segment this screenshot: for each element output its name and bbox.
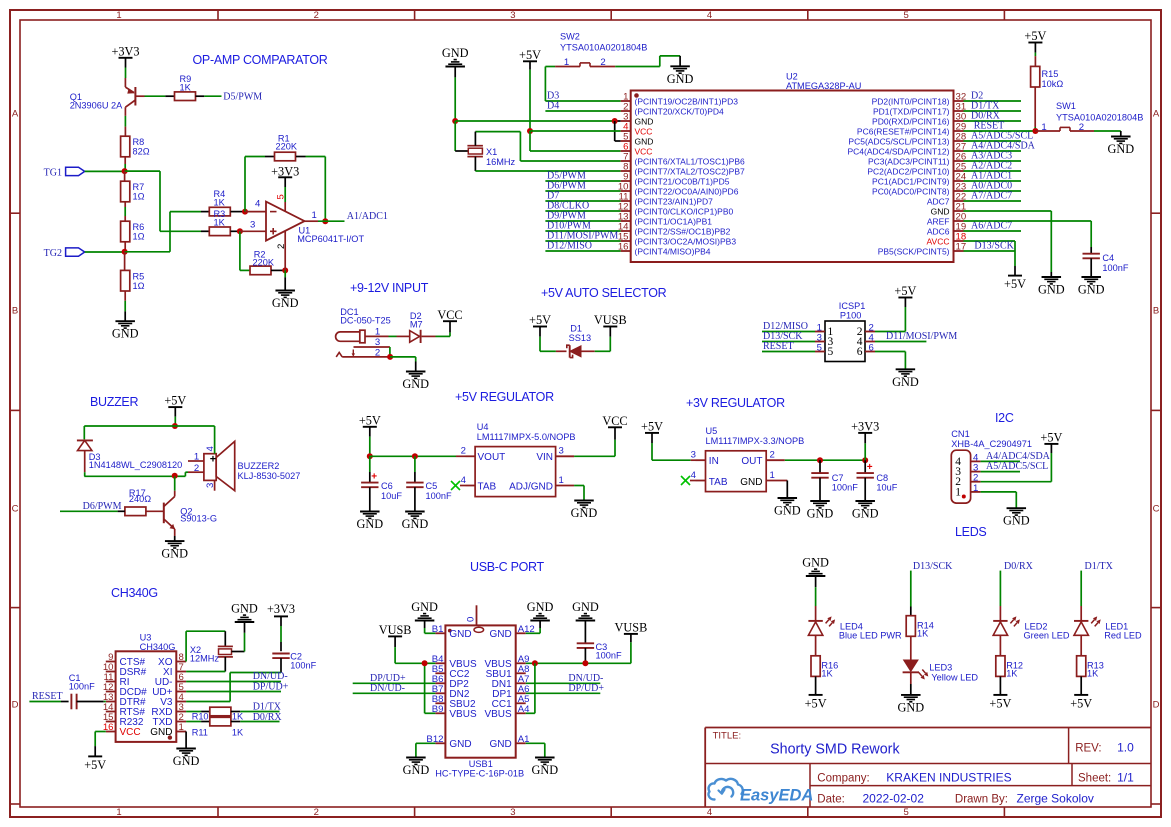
svg-text:82Ω: 82Ω [133,147,150,157]
svg-text:VCC: VCC [437,308,462,322]
wire Q1 base to R9 [145,95,166,97]
diode D1 SS13 schottky [567,324,591,358]
svg-text:TG2: TG2 [44,248,62,259]
power flag +3V3 (C2) [267,602,295,651]
U3 pin 14 RTS# [103,702,145,718]
resistor R11 1K [186,717,279,737]
wire R5 to ground [124,291,126,321]
svg-text:D12/MISO: D12/MISO [547,241,592,252]
svg-text:YTSA010A0201804B: YTSA010A0201804B [560,43,647,53]
net label D6/PWM (buzzer) [83,501,122,512]
U2 pin 31 PD1(TXD/PCINT17) [873,102,966,117]
svg-text:1K: 1K [214,217,226,227]
U2 pin 26 PC3(ADC3/PCINT11) [868,152,966,167]
U2 pin 6 VCC [621,142,653,157]
svg-text:GND: GND [161,547,188,561]
power flag +5V (AVCC) [1004,276,1026,292]
svg-text:1Ω: 1Ω [133,232,145,242]
svg-text:ADC6: ADC6 [927,227,950,237]
svg-text:PD2(INT0/PCINT18): PD2(INT0/PCINT18) [872,97,950,107]
svg-text:DP/UD+: DP/UD+ [568,683,604,694]
USB1 pin A12 GND [489,624,534,640]
ground (Q2) [161,541,188,561]
svg-text:C6: C6 [381,481,393,491]
svg-text:+5V: +5V [1070,696,1092,710]
svg-text:(PCINT4/MISO)PB4: (PCINT4/MISO)PB4 [635,247,711,257]
wire U5 OUT to +3V3 [864,433,866,460]
net label A5/ADC5/SCL wire [964,131,1034,142]
U2 pin 12 (PCINT0/CLKO/ICP1)PB0 [618,202,734,217]
U2 pin 5 GND [621,132,654,147]
svg-text:(PCINT3/OC2A/MOSI)PB3: (PCINT3/OC2A/MOSI)PB3 [635,237,737,247]
svg-text:Blue LED PWR: Blue LED PWR [839,630,902,640]
ground flag (X2) [231,602,258,623]
resistor R13 1K [1077,635,1104,678]
wire U2 pin7 to X1 top [475,132,620,161]
svg-text:4: 4 [707,807,712,818]
svg-text:1: 1 [559,475,564,486]
node GND rail junction [452,118,458,124]
svg-text:VCC: VCC [120,727,141,738]
no-connect X (U5 TAB) [681,476,696,485]
U2 pin 18 AVCC [927,232,967,247]
power flag +3V3 (U5 OUT) [851,420,879,434]
U2 pin 27 PC4(ADC4/SDA/PCINT12) [847,142,966,157]
wire buzzer bottom rail [84,472,188,476]
ground (DC1) [402,372,429,392]
diode D2 M7 [410,311,423,343]
title block REV [1075,741,1134,755]
svg-text:100nF: 100nF [426,491,452,501]
svg-text:RESET: RESET [32,691,63,702]
U3 pin 5 UD+ [152,682,186,698]
U2 pin 13 (PCINT1/OC1A)PB1 [618,212,712,227]
svg-text:R15: R15 [1042,69,1059,79]
svg-text:GND: GND [527,600,554,614]
svg-text:REV:: REV: [1075,743,1101,755]
wire +5V to U2 pin4 [530,130,621,132]
capacitor C6 10uF [361,456,402,511]
svg-text:(PCINT7/XTAL2/TOSC2)PB7: (PCINT7/XTAL2/TOSC2)PB7 [635,167,745,177]
wire USB A12 to ground flag [526,621,540,634]
svg-text:+: + [210,454,216,466]
svg-text:+5V: +5V [84,758,106,772]
svg-text:1/1: 1/1 [1117,771,1134,785]
wire GND rail down to X1 [455,121,468,151]
svg-text:HC-TYPE-C-16P-01B: HC-TYPE-C-16P-01B [435,768,524,778]
svg-text:GND: GND [1078,283,1105,297]
svg-text:+5V: +5V [1040,430,1062,444]
LED LED3 Yellow LED [903,660,979,683]
U3 pin 16 VCC [103,722,141,738]
svg-text:EasyEDA: EasyEDA [740,787,813,805]
U2 pin 8 (PCINT7/XTAL2/TOSC2)PB7 [621,162,745,177]
power flag +5V (U2 VCC) [519,48,541,131]
svg-text:(PCINT20/XCK/T0)PD4: (PCINT20/XCK/T0)PD4 [635,107,725,117]
wire CN1 pin2 to +5V [981,444,1052,482]
svg-text:(PCINT22/OC0A/AIN0)PD6: (PCINT22/OC0A/AIN0)PD6 [635,187,739,197]
U3 pin 4 V3 [160,692,186,708]
svg-text:GND: GND [807,507,834,521]
U3 pin 12 DCD# [103,682,147,698]
wire R12 to +5V [999,676,1001,695]
capacitor C7 100nF [811,460,858,501]
USB1 pin A5 CC1 [492,694,530,710]
svg-text:R5: R5 [133,272,145,282]
svg-text:GND: GND [489,629,511,640]
power flag +5V (U3) [84,756,106,772]
U2 pin 29 PC6(RESET#/PCINT14) [857,122,966,137]
svg-text:CH340G: CH340G [111,586,158,600]
svg-text:1.0: 1.0 [1117,741,1134,755]
net label D0/RX wire (U3) [253,712,283,723]
ground (C4) [1078,277,1105,297]
capacitor C1 100nF [61,673,106,709]
ground (USB B12) [403,758,430,778]
LED LED4 Blue LED PWR [808,606,902,640]
title block Date row [817,792,1094,806]
svg-text:C8: C8 [876,473,888,483]
svg-text:(PCINT6/XTAL1/TOSC1)PB6: (PCINT6/XTAL1/TOSC1)PB6 [635,157,745,167]
USB1 pin B5 CC2 [432,664,470,680]
U3 pin 11 RI [104,672,130,688]
svg-text:1K: 1K [1087,668,1099,678]
svg-text:GND: GND [892,375,919,389]
U2 pin 23 PC0(ADC0/PCINT8) [872,182,966,197]
svg-text:5: 5 [828,346,834,358]
ground (USB A1) [531,758,558,778]
svg-text:D: D [1153,700,1160,711]
svg-text:D5/PWM: D5/PWM [223,92,262,103]
svg-text:U5: U5 [706,426,718,436]
svg-text:3: 3 [559,446,564,457]
U2 pin 7 (PCINT6/XTAL1/TOSC1)PB6 [621,152,745,167]
svg-text:1: 1 [194,452,199,463]
svg-text:C4: C4 [1102,253,1114,263]
wire U2 pin21 GND [964,211,1052,277]
power flag +5V (C6) [359,413,381,456]
svg-text:SS13: SS13 [569,333,591,343]
U3 pin 15 R232 [103,712,144,728]
wire pin3 to pin5 GND [615,121,621,141]
svg-text:6: 6 [857,346,863,358]
svg-text:1: 1 [770,470,775,481]
svg-text:ADJ/GND: ADJ/GND [509,482,553,493]
U3 pin 13 DTR# [103,692,146,708]
USB1 pin A4 VBUS [484,704,530,720]
svg-text:GND: GND [272,296,299,310]
net label DP/UD+ wire (U3 UD+) [186,681,289,692]
wire Q1 collector to R8 [124,116,126,136]
svg-text:I2C: I2C [995,411,1014,425]
svg-text:TAB: TAB [478,482,497,493]
svg-text:GND: GND [150,727,172,738]
svg-text:VUSB: VUSB [594,313,627,327]
USB1 pin A8 SBU1 [486,664,530,680]
wire R8 to TG1 node [124,157,126,171]
net label A2/ADC2 wire [964,161,1022,172]
U3 pin 10 DSR# [103,662,147,678]
section title OP-AMP COMPARATOR [193,53,328,67]
svg-text:KRAKEN INDUSTRIES: KRAKEN INDUSTRIES [886,771,1011,785]
U3 pin 3 RXD [151,702,186,718]
U2 pin 21 GND [931,202,967,217]
svg-text:OP-AMP COMPARATOR: OP-AMP COMPARATOR [193,53,328,67]
wire TG2 node to R4 (pin4 row) [125,212,201,252]
U2 pin 4 VCC [621,122,653,137]
svg-text:A5/ADC5/SCL: A5/ADC5/SCL [986,461,1048,472]
wire TG1 to node [85,170,125,172]
net label D13/SCK wire (U2 pin17) [964,240,1016,251]
U3 pin 2 TXD [153,712,187,728]
svg-text:1: 1 [973,483,978,494]
wire output to A1/ADC1 [318,220,345,222]
svg-text:2: 2 [314,807,319,818]
title block Company row [817,771,1011,785]
section title +9-12V INPUT [350,281,429,295]
section title CH340G [111,586,158,600]
connector DC1 DC-050-T25 barrel jack [336,307,391,358]
svg-text:GND: GND [667,72,694,86]
wire U4 VIN to VCC [574,427,615,456]
svg-text:+3V3: +3V3 [111,44,139,58]
svg-text:10kΩ: 10kΩ [1042,79,1064,89]
ground flag (USB B1) [411,600,438,633]
section title +3V REGULATOR [686,396,785,410]
svg-text:GND: GND [571,506,598,520]
net label D4 wire [545,101,620,112]
svg-text:B: B [1153,306,1159,317]
title block TITLE text [713,731,742,742]
capacitor C4 100nF [1083,253,1129,273]
svg-text:1K: 1K [232,728,244,738]
power flag VUSB (selector) [594,313,627,327]
wire X2 bottom to U3 XI [186,657,225,672]
USB1 pin B7 DN2 [432,684,470,700]
U2 pin 22 ADC7 [927,192,966,207]
svg-text:R8: R8 [133,137,145,147]
section title BUZZER [90,395,138,409]
svg-text:U3: U3 [140,633,152,643]
ground below op-amp [272,291,299,311]
svg-text:0: 0 [466,617,477,622]
svg-text:YTSA010A0201804B: YTSA010A0201804B [1056,113,1143,123]
power flag VUSB (USB right) [614,621,647,635]
node C5 junction [412,453,418,459]
U2 pin 11 (PCINT23/AIN1)PD7 [619,192,714,207]
resistor R15 10kΩ [1031,56,1064,131]
net label A4/ADC4/SDA wire [964,141,1036,152]
svg-text:2: 2 [194,463,199,474]
svg-text:D11/MOSI/PWM: D11/MOSI/PWM [886,331,957,342]
net label D5/PWM [223,92,262,103]
IC U2 ATMEGA328P-AU body [631,72,954,263]
node op-amp pin4 junction [242,209,248,215]
svg-text:5: 5 [903,10,908,21]
svg-text:M7: M7 [410,320,423,330]
svg-text:IN: IN [709,456,719,467]
svg-text:4: 4 [691,470,697,481]
U2 pin 15 (PCINT3/OC2A/MOSI)PB3 [618,232,736,247]
capacitor C2 100nF [272,652,316,671]
net label DN/UD- wire (USB A7) [526,673,604,684]
svg-text:BUZZER: BUZZER [90,395,138,409]
svg-text:(PCINT2/SS#/OC1B)PB2: (PCINT2/SS#/OC1B)PB2 [635,227,731,237]
net label D8/CLKO wire [545,201,620,212]
node op-amp pin3 junction [237,228,243,234]
ground (C8) [852,501,879,521]
net label D13/SCK wire (ICSP) [762,331,815,342]
USB1 pin A9 VBUS [484,654,529,670]
net label D1/TX wire (U3) [253,702,282,713]
LED LED1 Red LED [1074,616,1142,640]
net label DN/UD- wire (U3 UD-) [186,671,288,682]
svg-text:GND: GND [635,137,654,147]
wire DC1 pin3 to pin2 [389,347,391,357]
svg-text:KLJ-8530-5027: KLJ-8530-5027 [238,471,301,481]
wire TG2 to node [85,251,125,253]
node C3 junction [582,660,588,666]
svg-text:+5V: +5V [641,419,663,433]
svg-text:+3V REGULATOR: +3V REGULATOR [686,396,785,410]
svg-text:+5V: +5V [1024,29,1046,43]
svg-text:1: 1 [116,10,121,21]
svg-text:B: B [12,306,18,317]
svg-text:DC-050-T25: DC-050-T25 [340,316,391,326]
U2 pin 30 PD0(RXD/PCINT16) [872,112,966,127]
svg-text:P100: P100 [840,311,861,321]
svg-text:RESET: RESET [763,341,794,352]
svg-text:1K: 1K [821,668,833,678]
svg-text:CH340G: CH340G [140,642,176,652]
U3 pin 6 UD- [155,672,186,688]
net label A1/ADC1 wire [964,171,1022,182]
svg-text:PD1(TXD/PCINT17): PD1(TXD/PCINT17) [873,107,950,117]
node buzzer +5V junction [172,423,178,429]
svg-text:Shorty SMD Rework: Shorty SMD Rework [770,742,900,758]
svg-text:LEDS: LEDS [955,525,986,539]
svg-text:+5V: +5V [989,696,1011,710]
svg-text:LM1117IMPX-5.0/NOPB: LM1117IMPX-5.0/NOPB [477,432,576,442]
net label D11/MOSI/PWM wire [545,231,620,242]
svg-text:D4: D4 [547,101,559,112]
node TG1 junction [122,168,128,174]
svg-text:Green LED: Green LED [1024,630,1070,640]
U2 pin 16 (PCINT4/MISO)PB4 [618,242,711,257]
wire X2 case to ground [232,622,245,652]
wire USB A9 rail to VUSB [526,634,631,663]
ground flag (X1 rail) [442,46,469,121]
wire U5 OUT rail [785,459,865,461]
svg-text:U4: U4 [477,422,489,432]
wire C4 to ground [1090,258,1092,277]
svg-text:AREF: AREF [927,217,950,227]
svg-text:2N3906U 2A: 2N3906U 2A [70,101,123,111]
U3 pin 8 XO [158,652,186,668]
U2 pin 9 (PCINT21/OC0B/T1)PD5 [621,172,730,187]
svg-text:100nF: 100nF [290,660,316,670]
svg-text:100nF: 100nF [1102,263,1128,273]
wire U3 VCC to +5V [95,732,106,757]
diode D3 1N4148WL_C2908120 [77,440,182,470]
resistor R16 1K [811,635,838,678]
svg-text:3: 3 [205,483,216,488]
svg-text:Company:: Company: [817,773,869,785]
net label A7/ADC7 wire [964,191,1022,202]
net label A3/ADC3 wire [964,151,1022,162]
svg-text:Drawn By:: Drawn By: [955,794,1008,806]
svg-text:A1/ADC1: A1/ADC1 [347,211,388,222]
U2 pin 14 (PCINT2/SS#/OC1B)PB2 [618,222,731,237]
wire +5V down to U2 pin6 [530,131,621,151]
USB1 pin B4 VBUS [432,654,477,670]
svg-text:+3V3: +3V3 [851,420,879,434]
svg-text:X1: X1 [486,147,497,157]
wire D2 to VCC [422,321,450,336]
capacitor C8 10uF [857,460,898,501]
svg-text:1N4148WL_C2908120: 1N4148WL_C2908120 [89,460,182,470]
svg-text:D1/TX: D1/TX [1085,561,1114,572]
svg-text:D13/SCK: D13/SCK [974,240,1014,251]
power flag VUSB (USB left) [379,623,412,663]
svg-text:+5V REGULATOR: +5V REGULATOR [455,390,554,404]
svg-text:+3V3: +3V3 [267,602,295,616]
svg-text:VCC: VCC [635,147,653,157]
net label D12/MISO wire [545,241,620,252]
svg-text:2: 2 [276,244,287,249]
svg-text:PC2(ADC2/PCINT10): PC2(ADC2/PCINT10) [867,167,949,177]
svg-text:3: 3 [510,807,515,818]
svg-text:+5V: +5V [529,313,551,327]
wire pin3 node to R2 [240,231,250,270]
svg-text:100nF: 100nF [69,682,95,692]
title block frame [705,728,1151,808]
svg-text:R10: R10 [192,712,209,722]
svg-text:+5V: +5V [1004,277,1026,291]
svg-text:VBUS: VBUS [484,709,512,720]
net label D0/RX wire [964,111,1022,122]
net label DP/UD+ wire (USB A6) [526,683,605,694]
svg-text:GND: GND [1038,283,1065,297]
svg-text:GND: GND [740,477,762,488]
ground (LED3) [897,695,924,715]
ground (U2 pin21) [1038,277,1065,297]
node USB A9 junction [532,660,538,666]
IC U3 CH340G body [116,633,177,742]
svg-text:VUSB: VUSB [379,623,412,637]
svg-text:1Ω: 1Ω [133,192,145,202]
ground (C5) [402,512,429,532]
svg-text:TAB: TAB [709,477,728,488]
U2 pin 17 PB5(SCK/PCINT5) [878,242,966,257]
svg-text:(PCINT21/OC0B/T1)PD5: (PCINT21/OC0B/T1)PD5 [635,177,730,187]
node C8 junction [862,457,868,463]
svg-text:PC3(ADC3/PCINT11): PC3(ADC3/PCINT11) [868,157,950,167]
svg-text:2022-02-02: 2022-02-02 [863,792,925,806]
resistor R2 220K [250,250,285,275]
wire feedback R1 loop [245,157,265,212]
svg-text:2: 2 [314,10,319,21]
USB1 pin A6 DP1 [492,684,529,700]
wire X1 bottom to U2 pin8 [475,157,620,171]
svg-text:GND: GND [173,754,200,768]
wire +5V to U5 IN [652,459,696,461]
svg-text:LED3: LED3 [929,663,952,673]
svg-text:PC5(ADC5/SCL/PCINT13): PC5(ADC5/SCL/PCINT13) [848,137,949,147]
wire +5V rail to U4 VOUT [370,455,466,457]
svg-text:100nF: 100nF [832,483,858,493]
svg-text:R6: R6 [133,222,145,232]
